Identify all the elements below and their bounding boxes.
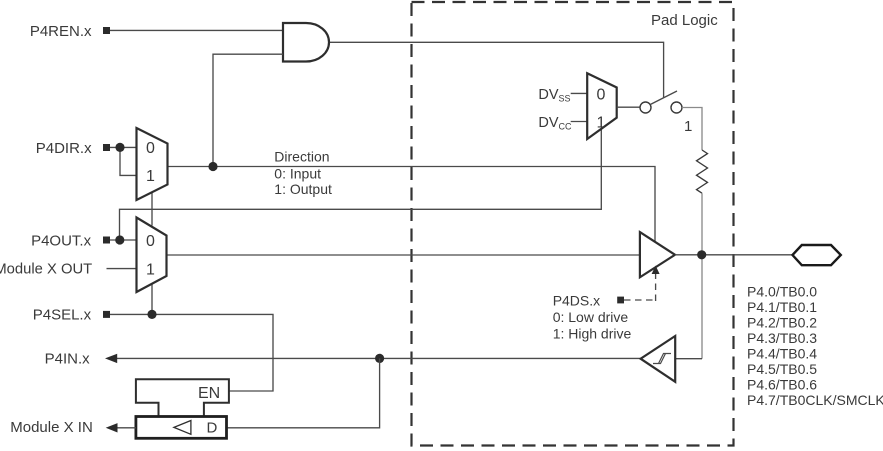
mux U2 P4DIR xyxy=(137,128,168,200)
driver buffer U5 xyxy=(640,232,675,277)
wire P4DIR.x to mux input 0 xyxy=(110,146,137,148)
arrow P4IN.x xyxy=(105,354,117,363)
wire direction line mux1 output to driver enable xyxy=(168,167,656,242)
wire AND output to switch xyxy=(329,42,664,98)
svg-text:P4REN.x: P4REN.x xyxy=(30,23,92,40)
terminal square P4REN.x xyxy=(103,27,110,34)
svg-text:P4.0/TB0.0: P4.0/TB0.0 xyxy=(747,283,817,299)
svg-text:Pad Logic: Pad Logic xyxy=(651,12,718,29)
and-gate U1 xyxy=(283,23,329,62)
terminal square P4DIR.x xyxy=(103,144,110,151)
label P4DS.x annotation xyxy=(553,292,632,341)
wire P4IN.x from schmitt xyxy=(117,357,641,359)
svg-text:DVSS: DVSS xyxy=(538,87,570,104)
svg-text:1: 1 xyxy=(146,262,155,279)
dashed wire P4DS.x drive strength xyxy=(624,272,656,301)
node junction P4OUT xyxy=(115,235,124,244)
svg-text:P4DIR.x: P4DIR.x xyxy=(36,140,92,157)
svg-text:1: High drive: 1: High drive xyxy=(553,325,632,341)
latch clock triangle xyxy=(174,421,191,435)
switch S1 contact left xyxy=(640,102,651,113)
node junction P4IN xyxy=(375,354,384,363)
pad logic dashed border xyxy=(412,2,734,446)
label Direction annotation xyxy=(274,148,332,197)
svg-text:Module X IN: Module X IN xyxy=(10,419,93,436)
svg-text:0: 0 xyxy=(146,140,155,157)
wire D latch to P4IN junction xyxy=(227,358,380,427)
wire Module X IN from D latch xyxy=(116,427,136,429)
switch S1 blade xyxy=(650,91,677,105)
node junction direction xyxy=(208,162,217,171)
latch EN box xyxy=(136,379,229,416)
mux U4 DVss/DVcc xyxy=(587,73,617,139)
svg-text:P4DS.x: P4DS.x xyxy=(553,292,600,308)
latch D box xyxy=(136,417,227,439)
wire mux2 output to driver xyxy=(167,254,641,256)
svg-text:0: 0 xyxy=(597,86,606,103)
wire P4OUT branch to DVss/DVcc mux select xyxy=(120,129,602,240)
svg-text:P4.4/TB0.4: P4.4/TB0.4 xyxy=(747,346,817,362)
wire P4SEL.x to EN xyxy=(110,314,273,391)
svg-text:P4OUT.x: P4OUT.x xyxy=(31,232,92,249)
svg-text:EN: EN xyxy=(198,385,220,402)
svg-text:0: Input: 0: Input xyxy=(274,166,321,182)
svg-text:P4SEL.x: P4SEL.x xyxy=(33,307,92,324)
wire driver output to pad xyxy=(675,254,793,256)
wire pad node down to schmitt input xyxy=(701,255,703,359)
arrow Module X IN xyxy=(106,423,118,432)
svg-text:P4.6/TB0.6: P4.6/TB0.6 xyxy=(747,377,817,393)
node junction P4DIR xyxy=(115,143,124,152)
wire mux U4 output to switch xyxy=(617,106,640,108)
svg-text:P4IN.x: P4IN.x xyxy=(45,350,91,367)
arrow P4DS into driver xyxy=(652,266,660,275)
svg-text:1: Output: 1: Output xyxy=(274,181,332,197)
wire P4REN.x to AND gate xyxy=(110,29,283,31)
wire P4OUT.x to mux2 input 0 xyxy=(110,239,137,241)
svg-text:P4.1/TB0.1: P4.1/TB0.1 xyxy=(747,299,817,315)
svg-text:1: 1 xyxy=(684,118,692,135)
wire resistor to pad node xyxy=(701,193,703,255)
svg-text:P4.7/TB0CLK/SMCLK: P4.7/TB0CLK/SMCLK xyxy=(747,392,883,408)
svg-text:1: 1 xyxy=(597,115,606,132)
wire DVss to mux xyxy=(571,92,588,94)
terminal square P4SEL.x xyxy=(103,311,110,318)
schmitt hysteresis symbol xyxy=(653,354,671,364)
svg-text:1: 1 xyxy=(146,168,155,185)
node pad junction xyxy=(697,250,706,259)
wire DVcc to mux xyxy=(571,121,588,123)
label pin names xyxy=(747,283,883,408)
svg-text:Module X OUT: Module X OUT xyxy=(0,261,92,277)
wire schmitt input xyxy=(675,358,702,360)
wire mux1 select from P4SEL xyxy=(151,193,153,315)
terminal square P4DS.x xyxy=(617,297,624,304)
wire Module X OUT to mux2 input 1 xyxy=(107,268,137,270)
svg-text:P4.2/TB0.2: P4.2/TB0.2 xyxy=(747,314,817,330)
wire junction up to AND gate input 2 xyxy=(213,54,283,166)
node junction P4SEL xyxy=(147,310,156,319)
mux U3 P4OUT xyxy=(137,218,167,293)
svg-text:D: D xyxy=(207,420,218,437)
svg-text:0: 0 xyxy=(146,233,155,250)
svg-text:Direction: Direction xyxy=(274,148,329,164)
terminal square P4OUT.x xyxy=(103,237,110,244)
svg-text:DVCC: DVCC xyxy=(538,115,572,132)
svg-text:0: Low drive: 0: Low drive xyxy=(553,309,629,325)
switch S1 contact right xyxy=(671,102,682,113)
schmitt trigger U6 xyxy=(641,336,676,382)
resistor R1 xyxy=(697,150,708,193)
wire switch to resistor xyxy=(682,108,702,151)
svg-text:P4.5/TB0.5: P4.5/TB0.5 xyxy=(747,361,817,377)
wire P4DIR.x branch to mux input 1 xyxy=(120,147,137,175)
pad hexagon P4 pin xyxy=(793,245,841,265)
svg-text:P4.3/TB0.3: P4.3/TB0.3 xyxy=(747,330,817,346)
